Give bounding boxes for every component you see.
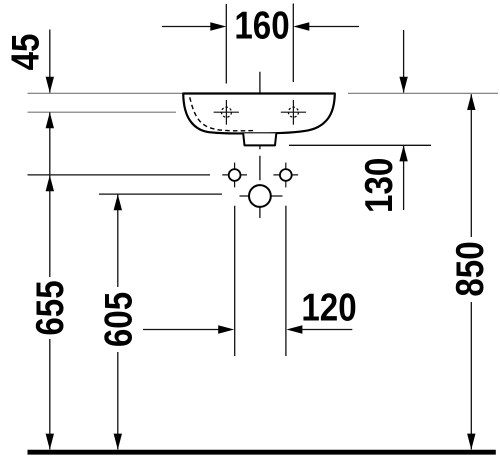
svg-text:605: 605 [96, 292, 140, 347]
svg-text:130: 130 [356, 158, 400, 213]
svg-text:655: 655 [28, 280, 72, 335]
svg-text:45: 45 [3, 34, 47, 71]
svg-text:850: 850 [448, 241, 492, 296]
svg-text:160: 160 [234, 3, 289, 47]
svg-text:120: 120 [301, 285, 356, 329]
